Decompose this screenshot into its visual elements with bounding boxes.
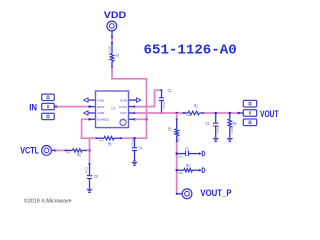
svg-text:C5: C5 xyxy=(94,174,98,179)
port VOUT pads xyxy=(243,100,256,107)
svg-text:R3: R3 xyxy=(233,121,237,126)
svg-text:GND: GND xyxy=(97,98,105,102)
svg-text:OUT: OUT xyxy=(120,111,127,115)
off-page plug after C3 xyxy=(199,152,202,155)
resistor R1 shunt on vout_p line xyxy=(176,112,178,114)
resistor R4 branch xyxy=(176,169,178,171)
connector VDD xyxy=(107,21,117,31)
connector VCTL xyxy=(42,146,52,156)
wire VCTL branch down xyxy=(89,138,91,164)
capacitor C5 xyxy=(89,164,91,175)
resistor R6 xyxy=(66,149,73,151)
wire R2 to VOUT xyxy=(204,112,239,114)
wire VCTL stub xyxy=(51,149,55,151)
svg-text:IN: IN xyxy=(29,103,37,113)
resistor R5 pull-up xyxy=(96,137,104,139)
svg-text:0402: 0402 xyxy=(230,125,234,133)
ground below R3 xyxy=(227,137,233,139)
wire VCC pin stub xyxy=(129,118,135,120)
svg-text:0402: 0402 xyxy=(162,101,166,109)
svg-text:R2: R2 xyxy=(194,104,198,109)
svg-text:GND: GND xyxy=(120,98,128,102)
ground below C5 xyxy=(87,188,93,190)
node VCC junction xyxy=(145,118,147,120)
capacitor C4 xyxy=(133,137,135,139)
op-amp U1 (RF amplifier IC) xyxy=(96,91,129,128)
wire VDD stub xyxy=(111,31,113,38)
svg-text:651-1126-A0: 651-1126-A0 xyxy=(144,43,237,59)
svg-text:VOUT_P: VOUT_P xyxy=(200,188,231,198)
svg-text:0402: 0402 xyxy=(85,166,89,174)
svg-text:C4: C4 xyxy=(139,146,143,151)
wire VDD net down and over to VCC column xyxy=(112,68,147,139)
wire OUT main line xyxy=(129,112,135,114)
pin GND left lower stub + arrow xyxy=(88,112,95,114)
svg-text:0402: 0402 xyxy=(107,45,111,53)
svg-text:0402: 0402 xyxy=(216,125,220,133)
svg-text:R4: R4 xyxy=(186,163,190,168)
wire R6 to node xyxy=(86,149,89,151)
svg-text:ENABLE: ENABLE xyxy=(97,118,109,122)
resistor R2 xyxy=(184,112,188,114)
svg-text:©2019 X-Microwave: ©2019 X-Microwave xyxy=(24,198,72,205)
svg-text:R1: R1 xyxy=(168,126,172,131)
port IN pads xyxy=(42,94,55,100)
capacitor C2 shunt xyxy=(215,112,217,114)
svg-text:C3: C3 xyxy=(185,146,189,151)
svg-text:VOUT: VOUT xyxy=(260,109,279,119)
wire FLTR to C1 xyxy=(129,106,135,108)
resistor R7 xyxy=(111,43,113,54)
pin GND left top stub + arrow xyxy=(88,99,95,101)
svg-text:0402: 0402 xyxy=(66,150,71,154)
svg-text:C1: C1 xyxy=(168,88,172,93)
svg-text:0402: 0402 xyxy=(177,134,181,142)
wire VDD to R7 xyxy=(111,38,113,43)
wire down to VOUT_P xyxy=(176,142,178,194)
svg-text:U1: U1 xyxy=(111,105,115,110)
capacitor C1 xyxy=(161,90,163,97)
svg-text:0402: 0402 xyxy=(99,138,104,142)
svg-text:R7: R7 xyxy=(116,54,120,59)
svg-text:R5: R5 xyxy=(108,142,112,147)
svg-text:C2: C2 xyxy=(206,121,210,126)
connector VOUT_P xyxy=(177,193,182,195)
wire IN to RFIN xyxy=(54,106,56,108)
svg-text:RFIN: RFIN xyxy=(97,105,104,109)
svg-text:0402: 0402 xyxy=(178,154,183,158)
svg-text:FLTR: FLTR xyxy=(119,105,127,109)
svg-text:0402: 0402 xyxy=(131,139,135,147)
capacitor C3 branch xyxy=(176,153,178,155)
svg-text:0402: 0402 xyxy=(186,113,191,117)
svg-text:R6: R6 xyxy=(77,153,81,158)
ground below C4 xyxy=(132,161,138,163)
svg-text:VCTL: VCTL xyxy=(20,146,39,156)
resistor R3 shunt xyxy=(229,112,231,114)
ground below C2 xyxy=(213,137,219,139)
off-page plug after R4 xyxy=(199,169,202,172)
svg-text:GND: GND xyxy=(97,111,105,115)
wire ENABLE pin stub xyxy=(90,118,96,120)
wire R5 to ENABLE xyxy=(82,119,96,138)
pin GND right stub + arrow xyxy=(129,99,137,101)
svg-text:0402: 0402 xyxy=(178,171,183,175)
svg-text:VDD: VDD xyxy=(104,10,127,20)
